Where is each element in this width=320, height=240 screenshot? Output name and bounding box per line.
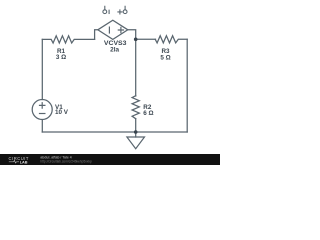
ground stub	[135, 132, 137, 137]
resistor R1	[42, 36, 94, 43]
resistor R2	[132, 96, 139, 119]
svg-text:LAB: LAB	[20, 160, 28, 164]
wire bottom rail	[42, 131, 187, 133]
control pin circle left	[103, 10, 107, 14]
svg-text:5 Ω: 5 Ω	[160, 54, 170, 61]
svg-text:10 V: 10 V	[55, 109, 69, 116]
svg-text:3 Ω: 3 Ω	[56, 54, 66, 61]
wire right vertical	[186, 39, 188, 132]
control pin minus label	[108, 10, 110, 13]
V1 minus sign	[40, 113, 45, 115]
ground triangle	[127, 137, 145, 149]
wire V1 bottom stub	[41, 120, 43, 132]
svg-text:2Ia: 2Ia	[110, 46, 119, 53]
node dot top	[134, 38, 138, 42]
svg-text:6 Ω: 6 Ω	[143, 110, 153, 117]
resistor R3	[155, 36, 187, 43]
wire node to R3	[136, 38, 156, 40]
watermark bar	[0, 154, 220, 165]
watermark logo squiggle and LAB	[9, 160, 19, 163]
svg-text:http://circuitlab.com/c/24bkeh: http://circuitlab.com/c/24bkehp5xxkp	[40, 159, 92, 163]
control pin circle right	[123, 10, 127, 14]
plus label inside diamond	[118, 27, 123, 32]
op-amp VCVS3 diamond body	[98, 20, 128, 39]
V1 plus sign	[40, 103, 45, 108]
voltage source V1 circle	[32, 100, 52, 120]
control pin stem left	[104, 6, 106, 10]
wire top-left vertical	[41, 39, 43, 99]
minus label inside diamond	[108, 27, 110, 33]
wire VCVS right tip to node	[128, 30, 136, 40]
wire R2 bottom to bottom rail	[135, 119, 137, 132]
control pin plus label	[118, 10, 122, 14]
node dot bottom	[134, 130, 138, 134]
wire riser to VCVS left tip	[95, 30, 98, 40]
wire node down to R2	[135, 39, 137, 96]
control pin stem right	[124, 6, 126, 10]
